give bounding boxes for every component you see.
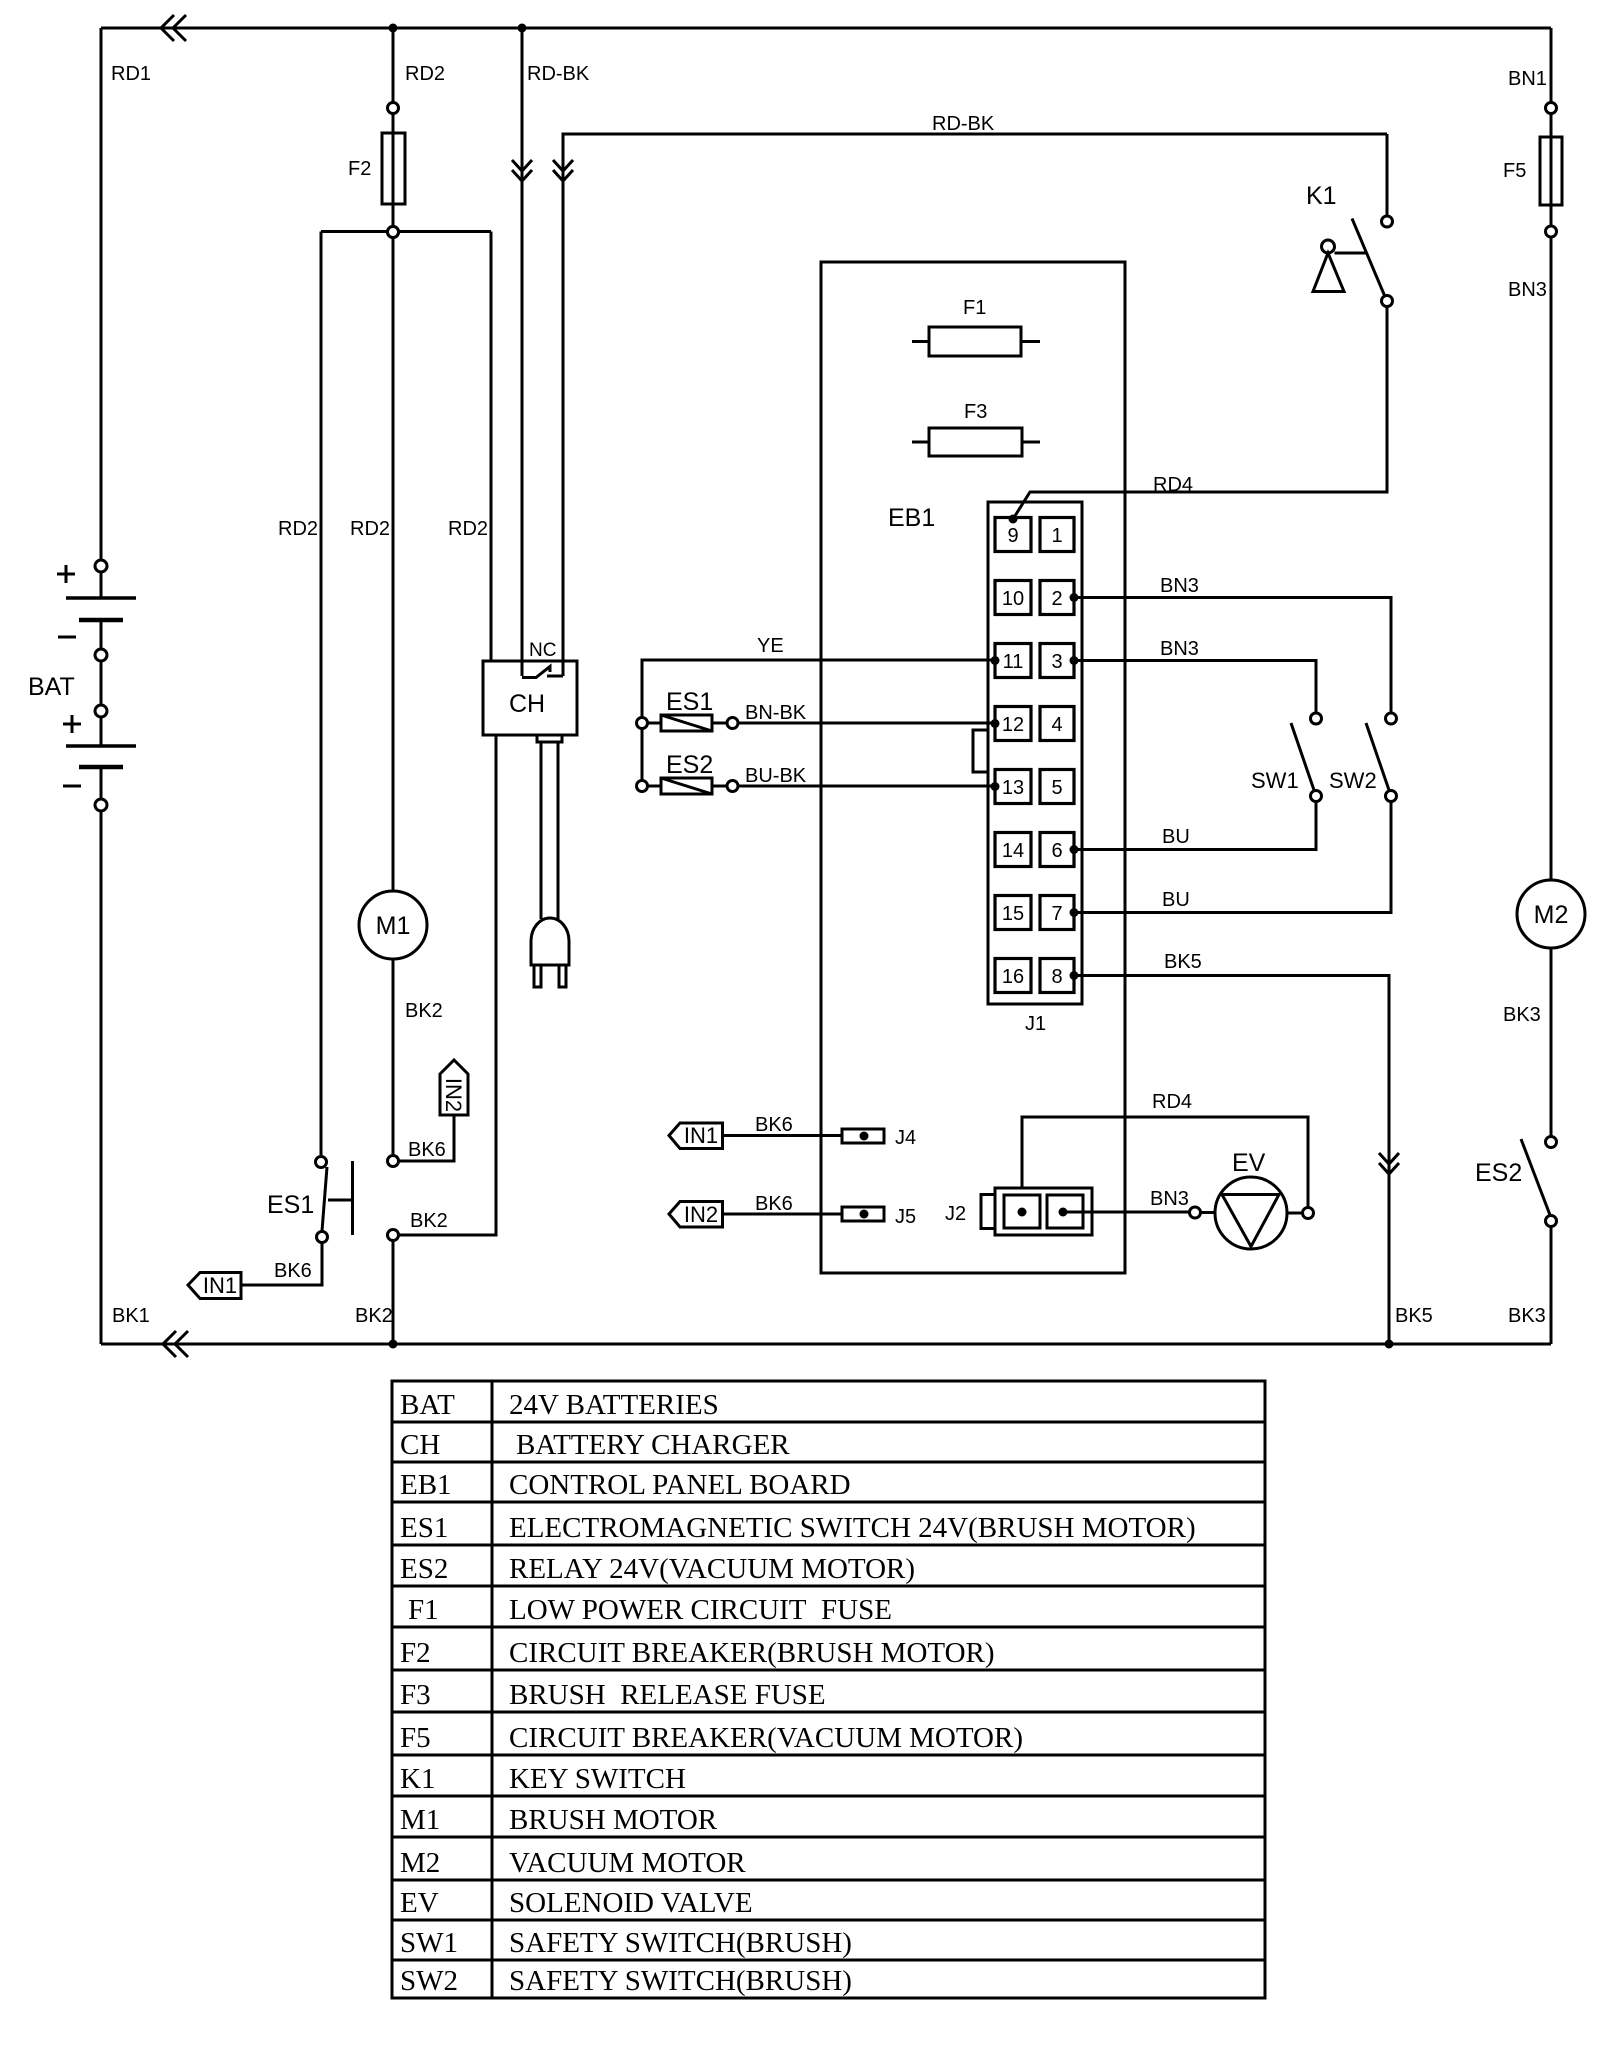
svg-text:3: 3 bbox=[1051, 651, 1062, 673]
svg-text:ES2: ES2 bbox=[666, 751, 713, 779]
circuit breaker F2 bbox=[392, 114, 395, 226]
pin 12 bbox=[995, 707, 1031, 741]
svg-text:SW2: SW2 bbox=[400, 1965, 458, 1997]
wire BU pin6 to SW1 bbox=[1074, 802, 1316, 850]
svg-text:CIRCUIT BREAKER(BRUSH MOTOR): CIRCUIT BREAKER(BRUSH MOTOR) bbox=[509, 1637, 995, 1669]
switch ES1 contact bbox=[316, 1157, 327, 1168]
terminal circle F2 top bbox=[388, 103, 399, 114]
svg-text:RD4: RD4 bbox=[1152, 1091, 1192, 1113]
svg-text:RD-BK: RD-BK bbox=[932, 113, 995, 135]
wire M1 bottom BK2 bbox=[392, 959, 395, 1156]
svg-text:ES1: ES1 bbox=[267, 1191, 314, 1219]
pin 10 bbox=[995, 581, 1031, 615]
fuse F3 bbox=[912, 441, 1040, 444]
svg-text:SW1: SW1 bbox=[400, 1927, 458, 1959]
svg-text:24V BATTERIES: 24V BATTERIES bbox=[509, 1389, 719, 1421]
svg-text:RD1: RD1 bbox=[111, 63, 151, 85]
svg-text:15: 15 bbox=[1002, 903, 1024, 925]
svg-text:BK6: BK6 bbox=[755, 1193, 793, 1215]
svg-text:M2: M2 bbox=[1534, 901, 1569, 929]
svg-text:IN2: IN2 bbox=[684, 1202, 718, 1227]
wire IN2 to M1 node BK6 bbox=[399, 1115, 454, 1161]
svg-text:K1: K1 bbox=[400, 1763, 435, 1795]
svg-text:BRUSH MOTOR: BRUSH MOTOR bbox=[509, 1804, 718, 1836]
svg-text:RD2: RD2 bbox=[350, 518, 390, 540]
fuse F1 bbox=[912, 340, 1040, 343]
battery plus sign upper bbox=[57, 573, 75, 576]
svg-text:F2: F2 bbox=[400, 1637, 431, 1669]
wire RD-BK left lead into CH bbox=[521, 28, 524, 661]
svg-text:EB1: EB1 bbox=[888, 504, 935, 532]
svg-text:BK6: BK6 bbox=[755, 1114, 793, 1136]
svg-text:RD2: RD2 bbox=[278, 518, 318, 540]
pin 5 bbox=[1040, 770, 1074, 804]
node dot pin13 bbox=[991, 782, 1000, 791]
svg-text:BN1: BN1 bbox=[1508, 68, 1547, 90]
terminal circle BK2 node bbox=[388, 1230, 399, 1241]
wire EV right lead bbox=[1287, 1212, 1303, 1215]
wire left bus upper bbox=[100, 28, 103, 560]
pin 11 bbox=[995, 644, 1031, 678]
connector J4 bbox=[842, 1129, 884, 1143]
svg-text:SOLENOID VALVE: SOLENOID VALVE bbox=[509, 1887, 753, 1919]
wire BN3 right bus bbox=[1550, 237, 1553, 880]
svg-text:J1: J1 bbox=[1025, 1013, 1046, 1035]
svg-text:EV: EV bbox=[1232, 1149, 1266, 1177]
svg-text:ES2: ES2 bbox=[400, 1553, 448, 1585]
svg-text:VACUUM MOTOR: VACUUM MOTOR bbox=[509, 1847, 746, 1879]
svg-text:BK3: BK3 bbox=[1508, 1305, 1546, 1327]
wire BN3 pin3 to SW1 bbox=[1074, 661, 1316, 714]
svg-text:F5: F5 bbox=[1503, 160, 1526, 182]
svg-text:M1: M1 bbox=[376, 912, 411, 940]
motor M2 bbox=[1517, 880, 1585, 948]
svg-text:BN3: BN3 bbox=[1160, 575, 1199, 597]
flag IN1 lower bbox=[188, 1273, 241, 1299]
solenoid valve EV bbox=[1215, 1177, 1287, 1249]
svg-text:RELAY 24V(VACUUM MOTOR): RELAY 24V(VACUUM MOTOR) bbox=[509, 1553, 915, 1585]
pin 9 bbox=[995, 518, 1031, 552]
wire M2 bottom BK3 bbox=[1550, 948, 1553, 1137]
svg-text:ES2: ES2 bbox=[1475, 1159, 1522, 1187]
svg-text:16: 16 bbox=[1002, 966, 1024, 988]
svg-text:BK3: BK3 bbox=[1503, 1004, 1541, 1026]
battery minus sign lower bbox=[63, 785, 81, 788]
pin 4 bbox=[1040, 707, 1074, 741]
flag IN2 at J5 bbox=[669, 1202, 723, 1228]
connector J1 box bbox=[988, 502, 1082, 1004]
svg-text:J4: J4 bbox=[895, 1127, 916, 1149]
svg-text:CH: CH bbox=[400, 1429, 440, 1461]
node junction top bus at F2 branch bbox=[389, 24, 398, 33]
connector J2 bbox=[981, 1195, 995, 1229]
continuation arrows BK5 bbox=[1379, 1153, 1399, 1164]
wire BN3 pin2 to SW2 bbox=[1074, 598, 1391, 714]
wire RD4 lower bbox=[1022, 1117, 1308, 1212]
wire bottom bus bbox=[101, 1343, 1551, 1346]
svg-text:BAT: BAT bbox=[400, 1389, 455, 1421]
svg-text:BN3: BN3 bbox=[1150, 1188, 1189, 1210]
svg-text:RD4: RD4 bbox=[1153, 474, 1193, 496]
control panel board EB1 box bbox=[821, 262, 1125, 1273]
svg-text:BN3: BN3 bbox=[1508, 279, 1547, 301]
svg-text:IN2: IN2 bbox=[441, 1078, 466, 1112]
battery BAT bbox=[95, 560, 107, 572]
terminal circle F5 bottom bbox=[1546, 226, 1557, 237]
svg-text:12: 12 bbox=[1002, 714, 1024, 736]
svg-text:EB1: EB1 bbox=[400, 1469, 452, 1501]
NC contact inside CH bbox=[521, 661, 524, 676]
svg-text:CH: CH bbox=[509, 690, 545, 718]
wire RD2 left branch bbox=[320, 232, 323, 1158]
wire BK6 IN2 to J5 bbox=[723, 1213, 843, 1216]
svg-text:BATTERY CHARGER: BATTERY CHARGER bbox=[516, 1429, 790, 1461]
wire BK6 IN1 to J4 bbox=[723, 1134, 843, 1137]
terminal circle F5 top bbox=[1546, 103, 1557, 114]
node dot pin11 bbox=[991, 656, 1000, 665]
pin 1 bbox=[1040, 518, 1074, 552]
wire F2 top lead bbox=[392, 28, 395, 102]
svg-text:RD-BK: RD-BK bbox=[527, 63, 590, 85]
svg-text:14: 14 bbox=[1002, 840, 1024, 862]
svg-text:BN-BK: BN-BK bbox=[745, 702, 807, 724]
svg-text:M2: M2 bbox=[400, 1847, 440, 1879]
svg-text:BK1: BK1 bbox=[112, 1305, 150, 1327]
circuit breaker F5 bbox=[1550, 114, 1553, 226]
svg-text:F1: F1 bbox=[963, 297, 986, 319]
legend table bbox=[392, 1381, 1265, 1998]
wire BU-BK to pin13 bbox=[738, 785, 995, 788]
node junction bottom bus BK2 bbox=[389, 1340, 398, 1349]
svg-text:SW1: SW1 bbox=[1251, 768, 1299, 793]
svg-text:CONTROL PANEL BOARD: CONTROL PANEL BOARD bbox=[509, 1469, 851, 1501]
wire right bus down to F5 bbox=[1550, 28, 1553, 102]
svg-text:SW2: SW2 bbox=[1329, 768, 1377, 793]
svg-text:BAT: BAT bbox=[28, 673, 75, 701]
mains plug bbox=[531, 918, 569, 965]
svg-text:7: 7 bbox=[1051, 903, 1062, 925]
battery charger CH box bbox=[483, 661, 577, 735]
wire YE net bbox=[642, 660, 995, 786]
svg-text:13: 13 bbox=[1002, 777, 1024, 799]
svg-text:BU: BU bbox=[1162, 889, 1190, 911]
key switch K1 bbox=[1386, 134, 1389, 216]
svg-text:LOW POWER CIRCUIT FUSE: LOW POWER CIRCUIT FUSE bbox=[509, 1594, 892, 1626]
svg-text:J2: J2 bbox=[945, 1203, 966, 1225]
battery plus sign lower bbox=[63, 723, 81, 726]
safety switch SW1 bbox=[1311, 713, 1322, 724]
node junction top bus at RD-BK branch bbox=[518, 24, 527, 33]
terminal circle EV left bbox=[1190, 1207, 1201, 1218]
pin 14 bbox=[995, 833, 1031, 867]
wire BN-BK to pin12 bbox=[738, 722, 995, 725]
pin 15 bbox=[995, 896, 1031, 930]
flag IN2 upper bbox=[440, 1060, 468, 1115]
wire node bar below F2 bbox=[321, 230, 491, 233]
pin 16 bbox=[995, 959, 1031, 993]
svg-text:SAFETY SWITCH(BRUSH): SAFETY SWITCH(BRUSH) bbox=[509, 1965, 852, 1997]
svg-text:YE: YE bbox=[757, 635, 784, 657]
svg-text:J5: J5 bbox=[895, 1206, 916, 1228]
relay contact ES2 bbox=[1546, 1137, 1557, 1148]
terminal circle M1/IN2 junction bbox=[388, 1156, 399, 1167]
safety switch SW2 bbox=[1386, 713, 1397, 724]
svg-text:BK6: BK6 bbox=[274, 1260, 312, 1282]
svg-text:IN1: IN1 bbox=[203, 1273, 237, 1298]
continuation arrows RD-BK left bbox=[512, 160, 532, 171]
svg-text:ELECTROMAGNETIC SWITCH 24V(BRU: ELECTROMAGNETIC SWITCH 24V(BRUSH MOTOR) bbox=[509, 1512, 1196, 1544]
coil ES1 bbox=[637, 718, 648, 729]
svg-text:RD2: RD2 bbox=[405, 63, 445, 85]
pin 13 bbox=[995, 770, 1031, 804]
wire ES2 to bottom bus bbox=[1550, 1227, 1553, 1344]
wire BU pin7 to SW2 bbox=[1074, 802, 1391, 913]
svg-text:BU-BK: BU-BK bbox=[745, 765, 807, 787]
pin 2 bbox=[1040, 581, 1074, 615]
svg-text:CIRCUIT BREAKER(VACUUM MOTOR): CIRCUIT BREAKER(VACUUM MOTOR) bbox=[509, 1722, 1023, 1754]
svg-text:F3: F3 bbox=[400, 1679, 431, 1711]
wire top bus RD1/RD2 bbox=[101, 27, 1551, 30]
node dot pin12 bbox=[991, 719, 1000, 728]
wire RD4 from pin9 to K1 bbox=[1009, 515, 1018, 524]
wire BK2 node to bottom bus bbox=[392, 1241, 395, 1344]
svg-text:9: 9 bbox=[1007, 525, 1018, 547]
svg-text:NC: NC bbox=[529, 640, 556, 661]
svg-text:F1: F1 bbox=[408, 1594, 439, 1626]
svg-text:ES1: ES1 bbox=[400, 1512, 448, 1544]
node junction bottom bus BK5 bbox=[1385, 1340, 1394, 1349]
svg-text:BK2: BK2 bbox=[355, 1305, 393, 1327]
wire ES1 to IN1 BK6 bbox=[241, 1243, 322, 1285]
connector J1 latch tab bbox=[973, 730, 988, 772]
CH mains cord bbox=[537, 735, 562, 742]
svg-text:SAFETY SWITCH(BRUSH): SAFETY SWITCH(BRUSH) bbox=[509, 1927, 852, 1959]
pin 8 bbox=[1040, 959, 1074, 993]
svg-text:5: 5 bbox=[1051, 777, 1062, 799]
svg-text:BK6: BK6 bbox=[408, 1139, 446, 1161]
svg-text:ES1: ES1 bbox=[666, 688, 713, 716]
pin 7 bbox=[1040, 896, 1074, 930]
flag IN1 at J4 bbox=[669, 1123, 723, 1149]
motor M1 bbox=[359, 891, 427, 959]
pin 3 bbox=[1040, 644, 1074, 678]
svg-text:EV: EV bbox=[400, 1887, 439, 1919]
svg-text:F2: F2 bbox=[348, 158, 371, 180]
svg-text:RD2: RD2 bbox=[448, 518, 488, 540]
svg-text:F5: F5 bbox=[400, 1722, 431, 1754]
svg-text:BU: BU bbox=[1162, 826, 1190, 848]
wire BN3 J2 to EV bbox=[1063, 1211, 1190, 1214]
svg-text:BN3: BN3 bbox=[1160, 638, 1199, 660]
wire CH battery lead down bbox=[399, 735, 496, 1235]
svg-text:KEY SWITCH: KEY SWITCH bbox=[509, 1763, 686, 1795]
svg-text:BK2: BK2 bbox=[410, 1210, 448, 1232]
svg-text:6: 6 bbox=[1051, 840, 1062, 862]
svg-text:2: 2 bbox=[1051, 588, 1062, 610]
wire RD2 right branch to CH bbox=[490, 232, 493, 662]
battery minus sign upper bbox=[58, 636, 76, 639]
svg-text:10: 10 bbox=[1002, 588, 1024, 610]
pin 6 bbox=[1040, 833, 1074, 867]
svg-text:11: 11 bbox=[1003, 651, 1024, 673]
svg-text:M1: M1 bbox=[400, 1804, 440, 1836]
svg-text:BK2: BK2 bbox=[405, 1000, 443, 1022]
terminal circle EV right bbox=[1303, 1208, 1314, 1219]
connector J5 bbox=[842, 1207, 884, 1221]
continuation arrows RD-BK right bbox=[553, 160, 573, 171]
coil ES2 bbox=[637, 781, 648, 792]
svg-text:1: 1 bbox=[1051, 525, 1062, 547]
wire left bus lower BK1 bbox=[100, 811, 103, 1344]
svg-text:BK5: BK5 bbox=[1164, 951, 1202, 973]
svg-text:IN1: IN1 bbox=[684, 1123, 718, 1148]
wire RD-BK right lead into CH bbox=[563, 134, 1387, 661]
wire RD2 middle branch to M1 bbox=[392, 237, 395, 891]
svg-text:BRUSH RELEASE FUSE: BRUSH RELEASE FUSE bbox=[509, 1679, 826, 1711]
svg-text:K1: K1 bbox=[1306, 182, 1337, 210]
wire BK5 pin8 to bottom bus bbox=[1074, 976, 1389, 1345]
continuation arrows top bus bbox=[161, 15, 174, 41]
svg-text:BK5: BK5 bbox=[1395, 1305, 1433, 1327]
continuation arrows bottom bus bbox=[163, 1331, 176, 1357]
svg-text:8: 8 bbox=[1051, 966, 1062, 988]
terminal circle F2 bottom bbox=[388, 227, 399, 238]
svg-text:F3: F3 bbox=[964, 401, 987, 423]
svg-text:4: 4 bbox=[1051, 714, 1062, 736]
